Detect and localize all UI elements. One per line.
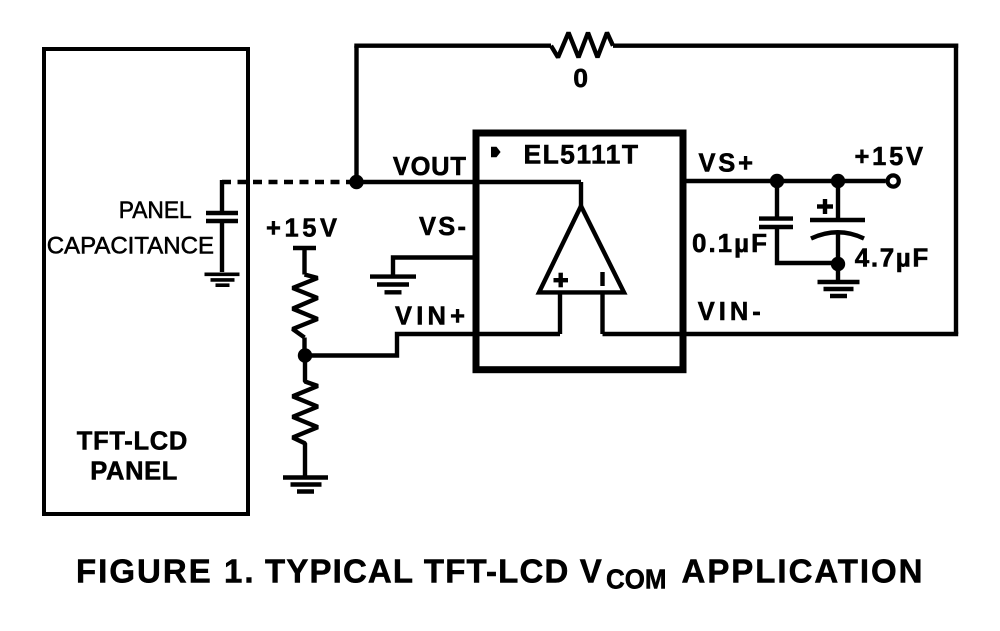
svg-text:VS-: VS- <box>419 213 466 241</box>
wire VS- to ground <box>393 258 476 276</box>
wire VIN+ (divider node to op-amp) <box>305 334 560 356</box>
svg-text:PANEL: PANEL <box>90 458 177 486</box>
wire VOUT (node to op-amp) <box>357 180 582 184</box>
wire VIN- (IC to feedback) <box>684 332 958 336</box>
ground (supply caps) <box>818 282 860 296</box>
capacitor C panel (panel capacitance) <box>206 180 238 272</box>
plus polarity mark (C2) <box>817 199 833 214</box>
wire VS+ <box>684 179 886 183</box>
wire - input to VIN- pin <box>603 332 685 336</box>
wire top feedback right segment <box>613 44 958 48</box>
node divider junction dot <box>298 348 312 362</box>
svg-text:COM: COM <box>606 563 667 594</box>
terminal +15V open circle <box>888 175 899 186</box>
wire - input stub <box>600 292 604 334</box>
terminal +15V bar <box>293 246 316 250</box>
op-amp - input marker <box>600 272 604 286</box>
svg-text:APPLICATION: APPLICATION <box>682 552 923 589</box>
svg-text:0.1µF: 0.1µF <box>692 228 767 258</box>
wire VOUT node up to feedback <box>354 46 358 182</box>
node VS+ dot 2 <box>831 174 845 188</box>
capacitor C1 0.1uF <box>759 181 838 263</box>
svg-text:4.7µF: 4.7µF <box>855 243 929 273</box>
svg-text:VIN-: VIN- <box>698 298 761 326</box>
wire +15V terminal to R upper <box>302 248 306 275</box>
svg-text:VOUT: VOUT <box>393 153 466 181</box>
resistor R lower divider <box>293 356 318 477</box>
op-amp + input marker <box>554 273 569 288</box>
svg-text:0: 0 <box>573 63 588 93</box>
dashed wire (panel cap to VOUT node) <box>222 180 356 184</box>
capacitor C2 4.7uF polarized <box>810 181 865 264</box>
wire op-amp output to apex <box>579 182 583 206</box>
node supply cap ground dot <box>831 257 845 271</box>
resistor R upper divider <box>293 275 318 338</box>
ground (divider) <box>283 478 328 492</box>
resistor R feedback 0 ohm <box>551 33 613 58</box>
wire feedback right vertical <box>954 44 958 335</box>
svg-text:+15V: +15V <box>855 143 924 171</box>
svg-text:VS+: VS+ <box>699 150 754 178</box>
op-amp triangle <box>539 206 624 292</box>
pin 1 marker <box>491 147 501 157</box>
svg-text:+15V: +15V <box>266 215 337 243</box>
TFT-LCD panel box <box>44 49 248 514</box>
svg-text:CAPACITANCE: CAPACITANCE <box>47 232 214 259</box>
svg-text:VIN+: VIN+ <box>395 302 465 330</box>
svg-text:FIGURE 1.: FIGURE 1. <box>76 552 254 589</box>
svg-text:PANEL: PANEL <box>119 197 192 224</box>
node VOUT junction dot <box>349 175 363 189</box>
wire top feedback left segment <box>354 44 551 48</box>
wire cap node to ground <box>836 264 840 280</box>
wire + input stub <box>558 292 562 334</box>
ground (VS-) <box>370 277 416 293</box>
svg-text:TFT-LCD: TFT-LCD <box>77 428 188 456</box>
node VS+ dot 1 <box>770 174 784 188</box>
wire R upper to divider node <box>302 338 306 356</box>
ground (panel capacitance) <box>205 274 240 285</box>
op-amp U1 package box EL5111T <box>476 133 683 370</box>
svg-text:TYPICAL TFT-LCD V: TYPICAL TFT-LCD V <box>265 552 602 589</box>
